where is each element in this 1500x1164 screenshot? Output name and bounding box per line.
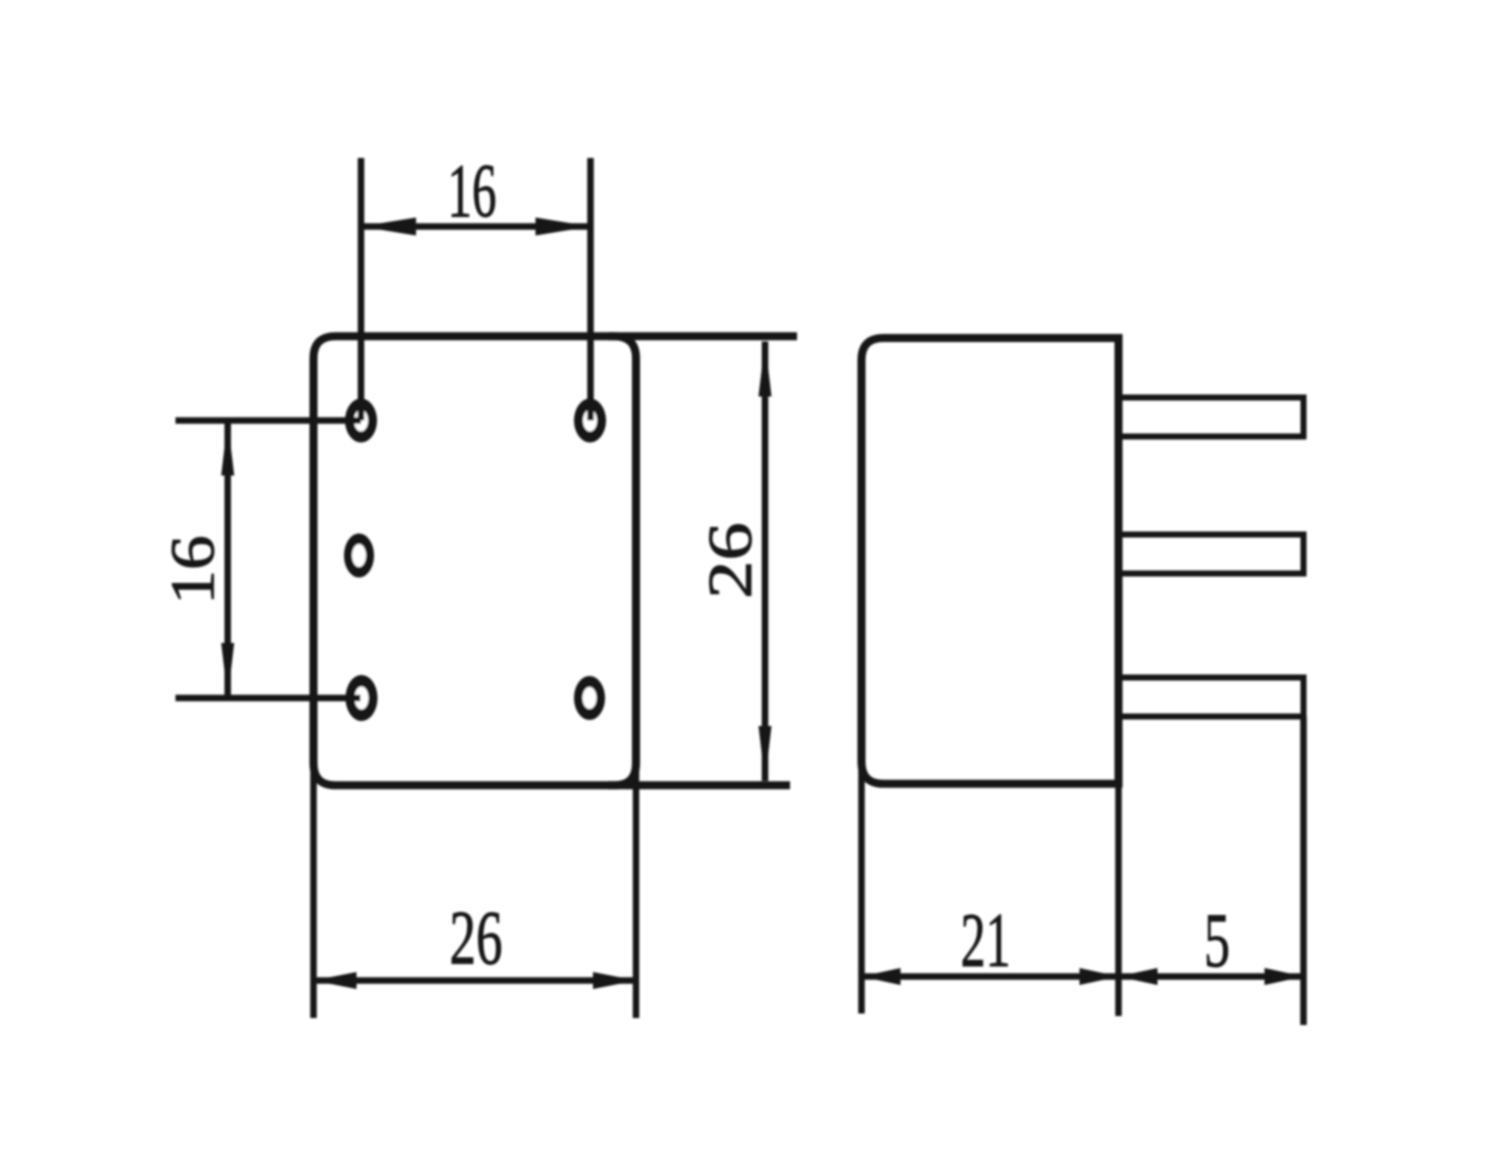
hole top-right — [574, 399, 606, 443]
arrowhead right of top 16 — [536, 218, 591, 236]
pin 3 outline — [1119, 678, 1304, 717]
arrowhead left of bottom 26 — [314, 972, 357, 989]
dimension line 26 right — [762, 342, 769, 782]
dimension line 16 left — [224, 421, 231, 699]
extension line horizontal to hole top-left — [176, 417, 362, 424]
hole bottom-right — [574, 676, 605, 720]
extension line vertical through hole top-right — [587, 158, 594, 421]
dimension line 5 — [1119, 973, 1304, 980]
arrowhead left of top 16 — [361, 218, 416, 236]
arrowhead right of bottom 26 — [593, 972, 636, 989]
pin 2 outline — [1119, 535, 1304, 574]
extension line below right body left edge — [858, 752, 865, 1014]
extension line below body left for bottom 26 — [310, 755, 317, 1018]
dimension line 26 bottom — [314, 977, 637, 984]
extension line below body right for bottom 26 — [633, 755, 640, 1018]
arrowhead up of left 16 — [221, 421, 234, 476]
hole middle-left — [344, 534, 374, 578]
svg-text:26: 26 — [450, 895, 503, 981]
arrowhead down of right 26 — [759, 726, 772, 781]
arrowhead right of 21 — [1080, 968, 1119, 985]
svg-text:26: 26 — [696, 522, 765, 598]
dimension line 16 top — [361, 223, 591, 230]
extension line below pin ends — [1300, 717, 1307, 1026]
arrowhead left of 5 — [1119, 968, 1158, 985]
arrowhead left of 21 — [862, 968, 901, 985]
svg-text:16: 16 — [448, 150, 497, 234]
arrowhead down of left 16 — [221, 643, 234, 698]
extension line: top edge extended right to 26 dimension — [608, 332, 797, 340]
arrowhead up of right 26 — [759, 342, 772, 397]
svg-text:21: 21 — [961, 897, 1011, 983]
extension line horizontal to hole bottom-left — [176, 695, 361, 702]
dimension line 21 — [862, 973, 1119, 980]
arrowhead right of 5 — [1265, 968, 1304, 985]
hole top-left — [345, 399, 377, 443]
right view body outline — [862, 338, 1119, 784]
extension line below right body right edge — [1115, 784, 1122, 1016]
hole bottom-left — [346, 675, 378, 721]
svg-text:5: 5 — [1204, 897, 1230, 983]
extension line vertical through hole top-left — [358, 158, 365, 421]
extension line: bottom edge extended right to 26 dimension — [608, 781, 790, 789]
svg-text:16: 16 — [157, 535, 227, 605]
left view body outline — [314, 336, 637, 785]
pin 1 outline — [1119, 398, 1304, 437]
